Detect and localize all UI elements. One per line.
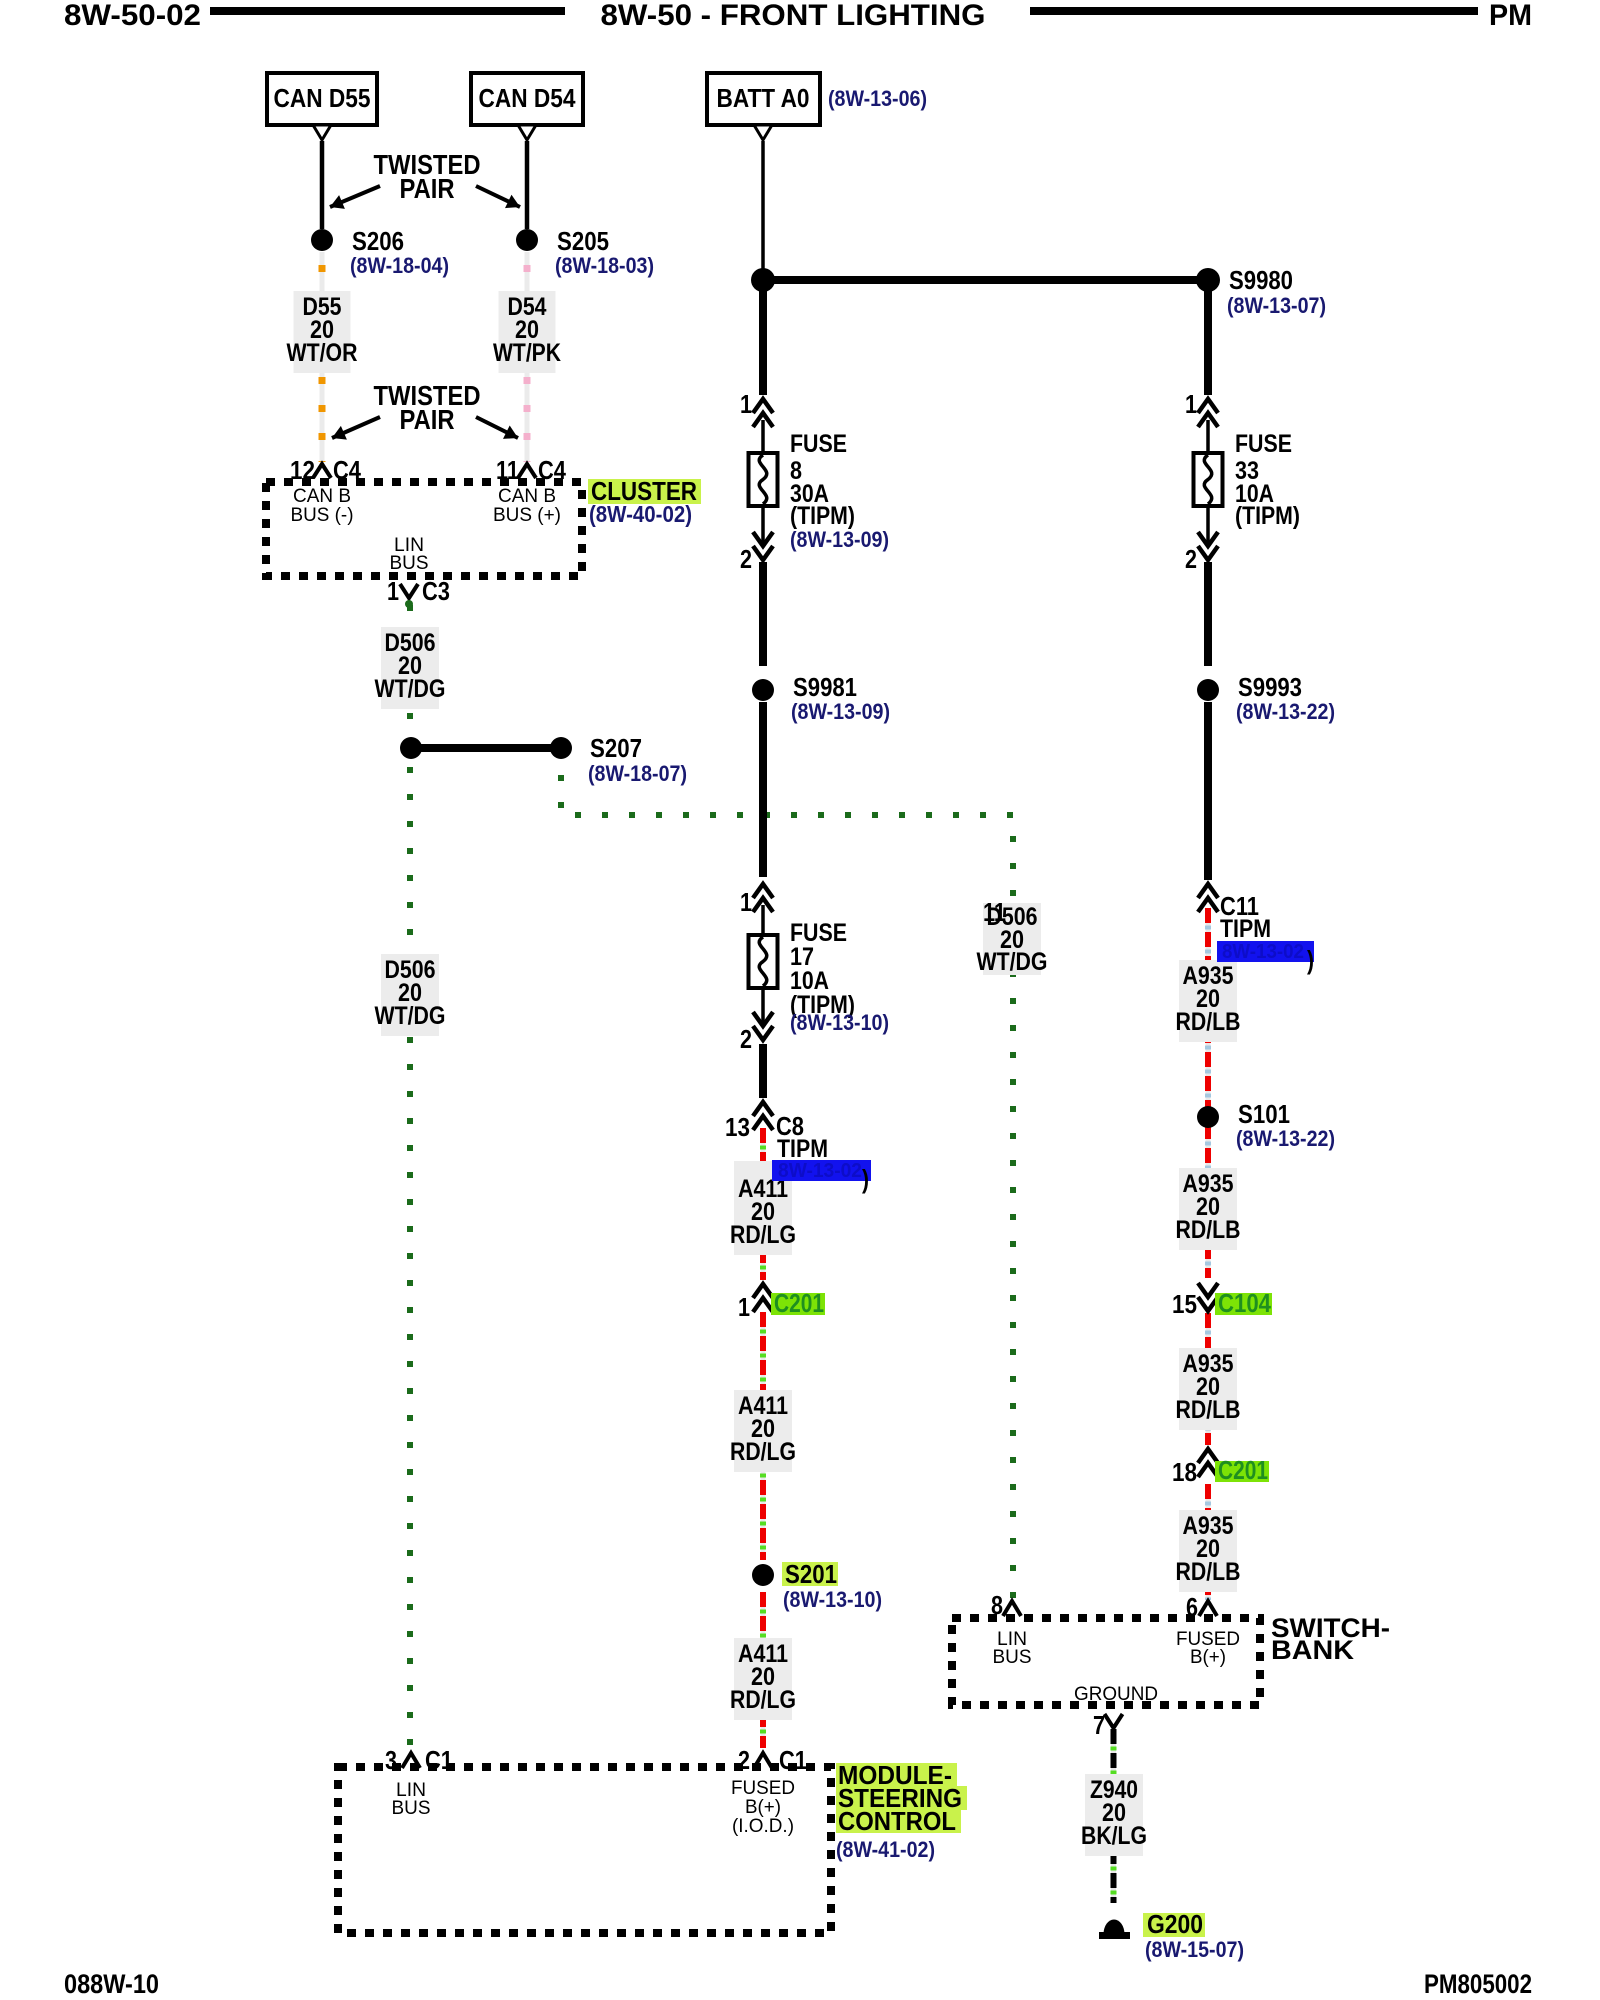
svg-text:): )	[862, 1164, 869, 1194]
svg-text:(8W-13-10): (8W-13-10)	[783, 1587, 882, 1612]
svg-text:(8W-13-09): (8W-13-09)	[790, 527, 889, 552]
svg-text:S207: S207	[590, 733, 642, 763]
svg-text:FUSED: FUSED	[731, 1778, 795, 1799]
svg-text:1: 1	[387, 576, 399, 606]
svg-text:(8W-13-22): (8W-13-22)	[1236, 1126, 1335, 1151]
svg-text:15: 15	[1172, 1289, 1197, 1319]
svg-text:S201: S201	[785, 1559, 837, 1589]
svg-text:1: 1	[1185, 389, 1197, 419]
svg-text:(8W-15-07): (8W-15-07)	[1145, 1937, 1244, 1962]
svg-text:RD/LG: RD/LG	[730, 1686, 796, 1714]
svg-text:S9981: S9981	[793, 672, 857, 702]
svg-text:8W-50-02: 8W-50-02	[64, 0, 201, 32]
svg-text:CONTROL: CONTROL	[838, 1806, 956, 1836]
svg-text:S9980: S9980	[1229, 265, 1293, 295]
svg-text:088W-10: 088W-10	[64, 1969, 159, 1999]
svg-text:C201: C201	[1218, 1455, 1268, 1485]
svg-text:1: 1	[738, 1292, 750, 1322]
svg-text:TIPM: TIPM	[1220, 915, 1271, 943]
svg-text:(8W-18-07): (8W-18-07)	[588, 761, 687, 786]
svg-text:S9993: S9993	[1238, 672, 1302, 702]
svg-text:BUS (+): BUS (+)	[493, 505, 561, 526]
svg-text:BANK: BANK	[1271, 1635, 1355, 1665]
svg-text:TIPM: TIPM	[777, 1135, 828, 1163]
svg-text:(8W-13-09): (8W-13-09)	[791, 699, 890, 724]
svg-text:WT/DG: WT/DG	[375, 1002, 446, 1030]
svg-text:PM: PM	[1489, 0, 1532, 32]
svg-text:BUS: BUS	[993, 1647, 1032, 1668]
svg-text:RD/LG: RD/LG	[730, 1438, 796, 1466]
svg-text:S205: S205	[557, 226, 609, 256]
svg-text:RD/LB: RD/LB	[1176, 1558, 1241, 1586]
svg-text:CAN B: CAN B	[293, 486, 351, 507]
svg-text:S101: S101	[1238, 1099, 1290, 1129]
svg-text:WT/DG: WT/DG	[375, 675, 446, 703]
svg-text:C1: C1	[425, 1745, 453, 1775]
svg-text:(8W-13-10): (8W-13-10)	[790, 1010, 889, 1035]
svg-text:RD/LB: RD/LB	[1176, 1396, 1241, 1424]
svg-text:8W-13-02: 8W-13-02	[778, 1160, 862, 1182]
svg-text:FUSE: FUSE	[1235, 430, 1292, 458]
svg-text:PAIR: PAIR	[400, 404, 455, 435]
svg-text:7: 7	[1093, 1710, 1105, 1740]
svg-text:FUSE: FUSE	[790, 430, 847, 458]
svg-text:RD/LB: RD/LB	[1176, 1008, 1241, 1036]
svg-text:8: 8	[991, 1590, 1003, 1620]
svg-text:18: 18	[1172, 1457, 1197, 1487]
svg-text:BUS: BUS	[390, 553, 429, 574]
svg-text:(8W-13-06): (8W-13-06)	[828, 86, 927, 111]
svg-text:RD/LG: RD/LG	[730, 1221, 796, 1249]
svg-text:3: 3	[385, 1745, 397, 1775]
svg-text:(8W-13-07): (8W-13-07)	[1227, 293, 1326, 318]
svg-text:2: 2	[1185, 544, 1197, 574]
svg-text:BK/LG: BK/LG	[1081, 1822, 1147, 1850]
svg-text:(TIPM): (TIPM)	[1235, 502, 1300, 530]
svg-text:(I.O.D.): (I.O.D.)	[732, 1816, 794, 1837]
svg-text:S206: S206	[352, 226, 404, 256]
svg-text:WT/DG: WT/DG	[977, 948, 1048, 976]
svg-text:(TIPM): (TIPM)	[790, 502, 855, 530]
svg-text:WT/OR: WT/OR	[287, 339, 358, 367]
svg-text:C3: C3	[422, 576, 450, 606]
svg-text:): )	[1307, 945, 1314, 975]
svg-text:(8W-13-22): (8W-13-22)	[1236, 699, 1335, 724]
svg-text:(8W-18-04): (8W-18-04)	[350, 253, 449, 278]
svg-text:C201: C201	[774, 1288, 824, 1318]
svg-text:(8W-41-02): (8W-41-02)	[836, 1837, 935, 1862]
svg-text:G200: G200	[1147, 1909, 1203, 1939]
svg-text:BATT A0: BATT A0	[717, 83, 810, 113]
svg-text:WT/PK: WT/PK	[493, 339, 561, 367]
svg-text:BUS: BUS	[392, 1798, 431, 1819]
svg-text:GROUND: GROUND	[1074, 1684, 1158, 1705]
svg-text:2: 2	[740, 1024, 752, 1054]
svg-text:PAIR: PAIR	[400, 173, 455, 204]
svg-text:2: 2	[740, 544, 752, 574]
svg-text:CAN D54: CAN D54	[479, 83, 576, 113]
svg-text:C104: C104	[1218, 1288, 1271, 1318]
svg-text:BUS (-): BUS (-)	[291, 505, 354, 526]
svg-text:B(+): B(+)	[745, 1797, 781, 1818]
svg-text:8W-50 - FRONT LIGHTING: 8W-50 - FRONT LIGHTING	[601, 0, 986, 32]
svg-text:(8W-18-03): (8W-18-03)	[555, 253, 654, 278]
svg-text:1: 1	[740, 887, 752, 917]
svg-text:CAN B: CAN B	[498, 486, 556, 507]
svg-text:B(+): B(+)	[1190, 1647, 1226, 1668]
svg-text:PM805002: PM805002	[1424, 1969, 1532, 1999]
svg-text:13: 13	[725, 1112, 750, 1142]
svg-text:RD/LB: RD/LB	[1176, 1216, 1241, 1244]
svg-text:CAN D55: CAN D55	[274, 83, 371, 113]
svg-text:8W-13-02: 8W-13-02	[1222, 941, 1304, 963]
svg-text:(8W-40-02): (8W-40-02)	[589, 501, 692, 527]
svg-text:1: 1	[740, 389, 752, 419]
